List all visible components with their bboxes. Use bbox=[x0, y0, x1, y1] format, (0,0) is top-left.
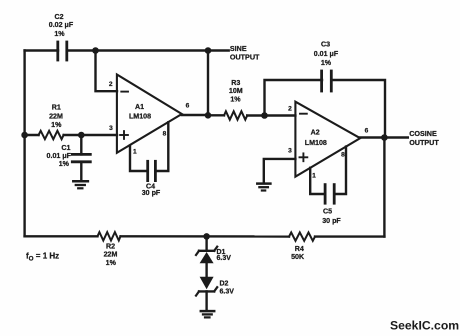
svg-text:SeekIC.com: SeekIC.com bbox=[390, 319, 459, 333]
ground zener bbox=[201, 311, 214, 317]
wire A1 pin 2 branch bbox=[96, 51, 118, 92]
node junction R1 / C1 bbox=[78, 132, 85, 139]
wire cosine stub bbox=[384, 136, 407, 138]
capacitor C2 bbox=[49, 13, 74, 60]
svg-text:0.01 μF: 0.01 μF bbox=[47, 152, 72, 160]
node COSINE OUTPUT label bbox=[409, 129, 439, 147]
resistor R3 bbox=[208, 79, 265, 120]
wire top right segment bbox=[67, 49, 229, 51]
diode D1 (zener) bbox=[196, 247, 231, 264]
wire A1 pin 1 lead bbox=[130, 146, 148, 171]
ground C1 bbox=[73, 181, 88, 188]
capacitor C3 bbox=[314, 41, 339, 91]
resistor R4 bbox=[289, 232, 315, 261]
svg-text:fO = 1 Hz: fO = 1 Hz bbox=[26, 251, 59, 262]
wire bottom left segment bbox=[25, 235, 98, 237]
node junction R3 / C3 / A2 pin 2 bbox=[261, 112, 268, 119]
wire A2 pin 3 to ground bbox=[264, 159, 296, 183]
svg-text:0.02 μF: 0.02 μF bbox=[49, 21, 74, 29]
svg-text:A2: A2 bbox=[311, 128, 320, 136]
svg-text:22M: 22M bbox=[49, 112, 63, 120]
svg-text:6.3V: 6.3V bbox=[217, 255, 232, 262]
capacitor C1 bbox=[47, 135, 91, 180]
wire A2 output bbox=[360, 136, 384, 138]
svg-text:OUTPUT: OUTPUT bbox=[409, 138, 439, 147]
ground A2 pin 3 bbox=[257, 184, 270, 191]
wire zener to ground bbox=[205, 291, 207, 310]
svg-text:C5: C5 bbox=[323, 208, 332, 216]
svg-text:1: 1 bbox=[312, 172, 316, 179]
svg-text:50K: 50K bbox=[291, 253, 305, 261]
wire zener drop bbox=[205, 236, 207, 250]
svg-text:2: 2 bbox=[109, 81, 113, 88]
resistor R2 bbox=[98, 232, 121, 267]
svg-text:OUTPUT: OUTPUT bbox=[230, 52, 260, 61]
capacitor C4 bbox=[142, 161, 161, 197]
svg-text:30 pF: 30 pF bbox=[322, 217, 341, 225]
op-amp A1 bbox=[117, 75, 182, 153]
svg-text:1%: 1% bbox=[59, 160, 70, 168]
svg-text:2: 2 bbox=[288, 106, 292, 113]
node junction left rail / R1 bbox=[21, 132, 28, 139]
node COSINE junction bbox=[381, 134, 388, 141]
wire A2 pin 8 lead bbox=[334, 147, 346, 194]
wire C3 to right rail bbox=[331, 80, 385, 138]
svg-text:1%: 1% bbox=[321, 59, 332, 67]
node SINE junction bbox=[205, 47, 212, 54]
svg-text:10M: 10M bbox=[229, 87, 243, 95]
node junction A1 output / R3 bbox=[205, 112, 212, 119]
resistor R1 bbox=[25, 104, 117, 140]
svg-text:R3: R3 bbox=[231, 79, 240, 87]
wire bottom middle segment bbox=[121, 235, 290, 238]
svg-text:1%: 1% bbox=[51, 121, 62, 129]
svg-text:22M: 22M bbox=[104, 251, 118, 259]
svg-text:6: 6 bbox=[365, 127, 369, 134]
svg-text:3: 3 bbox=[288, 148, 292, 155]
svg-text:C2: C2 bbox=[54, 13, 63, 21]
wire sine drop to A1 output bbox=[207, 51, 209, 116]
svg-text:A1: A1 bbox=[135, 103, 144, 111]
svg-text:1%: 1% bbox=[230, 96, 241, 104]
svg-text:LM108: LM108 bbox=[305, 139, 327, 147]
wire A2 pin 1 lead bbox=[310, 168, 325, 194]
svg-text:LM108: LM108 bbox=[129, 112, 151, 120]
diode D2 (zener) bbox=[196, 277, 234, 296]
svg-text:8: 8 bbox=[341, 151, 345, 158]
svg-text:0.01 μF: 0.01 μF bbox=[314, 50, 339, 58]
svg-text:6.3V: 6.3V bbox=[220, 288, 235, 295]
node junction C2 / A1 pin 2 bbox=[92, 47, 99, 54]
svg-text:3: 3 bbox=[109, 125, 113, 132]
svg-text:R1: R1 bbox=[52, 104, 61, 112]
op-amp A2 bbox=[295, 102, 360, 177]
svg-text:COSINE: COSINE bbox=[409, 129, 437, 138]
capacitor C5 bbox=[322, 185, 341, 225]
wire C3 branch bbox=[265, 80, 323, 116]
wire between zeners bbox=[205, 263, 207, 277]
svg-text:1%: 1% bbox=[54, 30, 65, 38]
wire A2 pin 2 segment bbox=[265, 114, 296, 116]
svg-text:30 pF: 30 pF bbox=[142, 189, 161, 197]
svg-text:D2: D2 bbox=[220, 281, 229, 288]
svg-text:R2: R2 bbox=[106, 243, 115, 251]
wire A1 output bbox=[182, 114, 208, 116]
wire bottom right segment bbox=[315, 235, 384, 237]
wire right rail lower bbox=[383, 138, 385, 237]
svg-text:R4: R4 bbox=[295, 245, 304, 253]
svg-text:8: 8 bbox=[163, 131, 167, 138]
wire top left segment bbox=[25, 49, 58, 51]
wire left rail bbox=[23, 51, 25, 237]
svg-text:1%: 1% bbox=[106, 259, 117, 267]
svg-text:6: 6 bbox=[186, 103, 190, 110]
wire A1 pin 8 lead bbox=[155, 122, 168, 171]
svg-text:1: 1 bbox=[133, 149, 137, 156]
svg-text:C3: C3 bbox=[321, 41, 330, 49]
node junction zener branch bbox=[203, 233, 210, 240]
node SINE OUTPUT label bbox=[230, 44, 260, 61]
